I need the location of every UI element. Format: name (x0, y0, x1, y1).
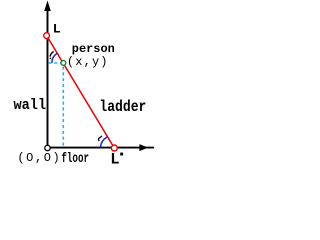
node angle arc at person (52, 53, 58, 63)
node ladder top circle L (44, 33, 50, 39)
svg-text:(x,y): (x,y) (67, 55, 108, 69)
svg-text:floor: floor (61, 151, 89, 165)
node origin circle (45, 145, 50, 150)
svg-text:L: L (53, 22, 61, 37)
wire x-axis (floor line) (50, 147, 154, 149)
svg-text:L: L (110, 150, 119, 165)
svg-text:wall: wall (14, 98, 47, 114)
wire dashed vertical from person to floor (62, 66, 64, 146)
node y-axis arrowhead (44, 1, 51, 12)
node angle mark glyph at person (50, 52, 54, 60)
svg-text:ladder: ladder (99, 98, 146, 116)
label L' (foot of ladder) (110, 150, 123, 168)
svg-text:person: person (72, 42, 115, 56)
node angle arc at ladder foot (100, 137, 107, 148)
node angle mark glyph at ladder foot (99, 136, 102, 141)
wire dashed horizontal from wall to person (48, 62, 60, 64)
wire ladder line (47, 36, 115, 148)
wire y-axis (wall line) (47, 7, 49, 145)
svg-text:(O,O): (O,O) (17, 151, 59, 165)
node x-axis arrowhead (139, 144, 148, 151)
node person circle (61, 61, 66, 66)
node ladder foot circle L' (111, 145, 117, 151)
